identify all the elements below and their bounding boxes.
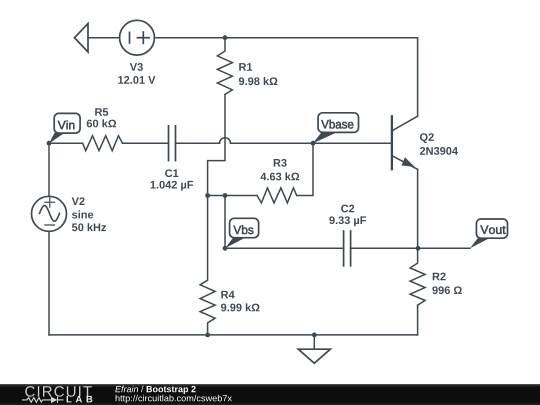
node: junction dot R4 / rail [205, 333, 210, 338]
net label Vbs [225, 218, 259, 248]
wire: C1 to hop [176, 142, 220, 144]
transistor Q2 2N3904 [392, 116, 418, 169]
port flag (input terminal triangle, top left) [75, 24, 89, 53]
wire: hop to Vbase node to Q2 base [231, 142, 392, 144]
node Vbs junction dot [223, 246, 228, 251]
resistor R4 [200, 196, 215, 335]
wire hop over R1 lead [220, 138, 231, 144]
wire: R1 bottom lead through hop, jog left down to Vbs net [208, 95, 225, 196]
label C2 value [329, 205, 366, 227]
label R3 value [260, 159, 299, 181]
wire: top rail V3 to collector riser [154, 38, 417, 116]
voltage source V3 (12.01 V DC) [120, 20, 155, 55]
wire: R3 to Vbs net [208, 195, 258, 197]
capacitor C2 [344, 231, 351, 266]
footer bar [0, 384, 540, 405]
node Vout junction dot [416, 246, 421, 251]
wire: V2 bottom to ground rail [48, 231, 50, 335]
wire: bottom ground rail [49, 334, 418, 336]
wire: Q2 emitter down to Vout node [417, 169, 419, 248]
ground symbol [298, 335, 330, 363]
label V2 value [72, 197, 106, 231]
wire: V2 top lead from Vin node [48, 143, 50, 196]
net label Vin [49, 113, 80, 143]
node Vbase junction dot [311, 141, 316, 146]
label R2 value [432, 273, 461, 294]
label R5 value [87, 108, 116, 127]
node: junction dot R1/R3/R4 [205, 193, 210, 198]
wire: port to V3 [88, 37, 120, 39]
resistor R2 [410, 248, 425, 305]
label R1 value [239, 63, 278, 85]
resistor R1 [217, 38, 232, 95]
resistor R3 [257, 188, 297, 203]
label V3 value [118, 63, 155, 84]
capacitor C1 [169, 126, 176, 161]
footer logo CIRCUIT LAB [22, 386, 92, 403]
resistor R5 [83, 136, 123, 151]
node: junction dot top rail / R1 [223, 35, 228, 40]
wire: R2 bottom to ground rail [417, 305, 419, 335]
voltage source V2 (sine) [32, 196, 67, 231]
wire: C2 to Vout node [351, 247, 470, 249]
footer title text [115, 386, 232, 403]
wire: Vbase riser down to R3 [297, 143, 313, 195]
label R4 value [221, 291, 260, 312]
net label Vbase [313, 113, 359, 143]
wire: Vin node to R5 [49, 142, 83, 144]
wire: Vbs to C2 [225, 247, 344, 249]
label Q2 value [420, 133, 458, 155]
label C1 value [151, 169, 194, 190]
net label Vout [470, 219, 508, 248]
wire: Vbs riser [224, 196, 226, 249]
node Vin junction dot [47, 141, 52, 146]
node: junction dot ground / rail [312, 333, 317, 338]
wire: R5 to C1 [123, 142, 169, 144]
node: junction dot Vbs riser top [223, 193, 228, 198]
